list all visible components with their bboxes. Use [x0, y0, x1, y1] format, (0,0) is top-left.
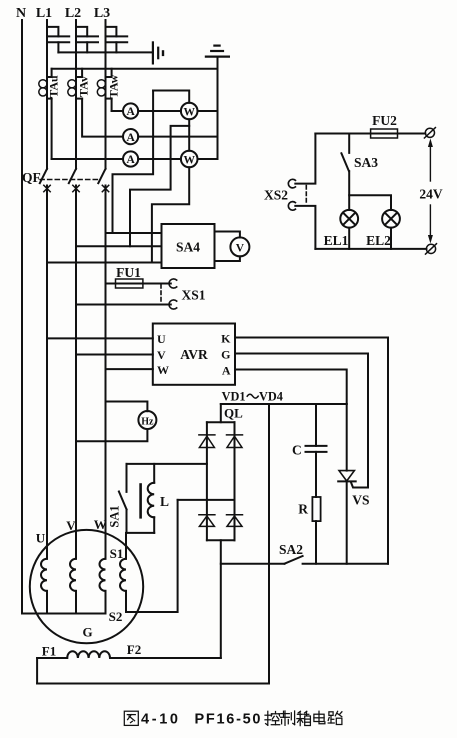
svg-text:N: N — [16, 6, 26, 21]
wire L1 vertical top — [46, 20, 48, 169]
svg-text:V: V — [236, 243, 245, 255]
capacitor C-L3 plates — [106, 36, 128, 42]
wire F1 down — [36, 658, 38, 684]
wire TAw secondary to A1 — [111, 99, 113, 111]
ammeter A2 letter — [126, 132, 135, 144]
wire W1 bottom to W2 top — [188, 119, 190, 150]
node N label — [16, 6, 26, 21]
resistor R — [312, 497, 320, 521]
breaker QF pole L3 blade — [98, 169, 105, 183]
wire winding U bottom — [46, 591, 48, 614]
wire L3 to AVR W — [106, 368, 153, 370]
svg-text:S1: S1 — [110, 546, 124, 561]
inductor L upper wire — [153, 464, 155, 483]
voltmeter V letter — [236, 243, 245, 255]
svg-text:R: R — [298, 502, 308, 517]
svg-text:L3: L3 — [94, 6, 110, 21]
inductor L label — [160, 494, 169, 509]
wire TAu to A3 — [52, 158, 123, 160]
wire AVR G to VS gate — [235, 354, 368, 488]
resistor R label — [298, 502, 308, 517]
wire XS2 upper to rail — [295, 134, 315, 184]
fuse FU2 — [371, 129, 398, 138]
label 24V — [419, 187, 443, 202]
wire bridge AC right tap — [178, 499, 235, 501]
switch SA1 blade — [119, 492, 127, 510]
frequency meter Hz letters — [141, 416, 154, 427]
diode VD2 — [227, 435, 243, 448]
wire bridge AC left tap — [127, 463, 207, 465]
svg-text:Hz: Hz — [141, 416, 154, 427]
diode VD3 — [199, 515, 215, 527]
caption glyph xiang (box) — [297, 711, 311, 725]
wire 24V bottom rail — [315, 248, 426, 250]
inductor L core bar — [139, 485, 142, 518]
socket XS1 lower contact — [169, 300, 177, 309]
socket XS2 label — [264, 188, 288, 203]
diode VD1 — [199, 435, 215, 448]
socket XS2 dashed link — [305, 186, 307, 204]
wire FU1 to XS1 upper — [143, 283, 171, 285]
regulator AVR label — [180, 347, 208, 362]
svg-text:G: G — [221, 348, 230, 362]
breaker QF linkage dashed — [40, 179, 100, 181]
label F1 — [42, 644, 56, 659]
generator winding W — [99, 559, 105, 591]
transformer TA-v (CT on L2) — [68, 69, 82, 99]
dimension arrow 24V lower — [428, 205, 433, 244]
wire L3 to FU1 — [106, 283, 116, 285]
switch SA1 lower wire — [126, 510, 128, 533]
fuse FU2 label — [372, 113, 397, 128]
svg-text:VD1: VD1 — [222, 389, 246, 403]
svg-text:TAu: TAu — [47, 75, 61, 98]
thyristor VS cathode wire — [346, 481, 348, 563]
wattmeter W1 — [181, 103, 198, 120]
svg-text:4-10: 4-10 — [141, 712, 178, 728]
inductor L coil — [148, 483, 154, 518]
svg-text:S2: S2 — [109, 609, 123, 624]
svg-text:AVR: AVR — [180, 347, 208, 362]
breaker QF contact x L2 — [73, 185, 79, 191]
wire L2 to XS1 lower — [76, 304, 171, 306]
svg-text:A: A — [222, 364, 231, 378]
svg-text:XS2: XS2 — [264, 188, 288, 203]
svg-text:K: K — [221, 332, 231, 346]
ammeter A1 letter — [126, 106, 135, 118]
caption glyph tu (figure) — [124, 711, 138, 725]
wire SA2 left — [221, 563, 285, 565]
thyristor VS label — [352, 493, 369, 508]
socket XS2 upper contact — [288, 179, 295, 188]
ground chassis (rotated) — [153, 42, 163, 63]
fuse FU1 label — [116, 265, 141, 280]
switch SA2 label — [279, 542, 303, 557]
inductor L lower wire — [153, 517, 155, 533]
socket XS1 label — [181, 288, 205, 303]
wire Hz to L2 — [76, 429, 147, 441]
svg-text:FU2: FU2 — [372, 113, 397, 128]
lamp EL1 label — [324, 233, 349, 248]
label S1 — [110, 546, 124, 561]
wire TAu secondary to A3 — [51, 99, 53, 159]
fuse FU1 — [116, 279, 143, 288]
wire winding W bottom — [105, 591, 107, 614]
svg-text:A: A — [126, 154, 135, 166]
lamp EL2 — [382, 210, 400, 228]
field winding F1-F2 wire right — [110, 657, 221, 659]
pin K label — [221, 332, 231, 346]
wire SA2 right — [303, 563, 388, 565]
switch SA1 upper stub — [126, 464, 128, 492]
socket XS2 lower contact — [288, 202, 295, 211]
lamp EL2 label — [366, 233, 391, 248]
node L2 label — [65, 6, 81, 21]
wire bottom return — [37, 683, 269, 685]
capacitor C label — [292, 443, 302, 458]
capacitor C-L2 plates — [76, 36, 98, 42]
wire SA4 to voltmeter bottom — [215, 256, 240, 261]
capacitor C-L3 lower stem — [115, 42, 117, 52]
transformer TA-u (CT on L1) — [39, 69, 52, 99]
svg-text:XS1: XS1 — [181, 288, 205, 303]
switch SA3 label — [354, 155, 378, 170]
switch SA1 label — [108, 505, 122, 527]
svg-text:VD4: VD4 — [259, 389, 283, 403]
pin U label — [157, 332, 166, 346]
ammeter A1 — [123, 103, 138, 118]
svg-text:V: V — [66, 518, 76, 533]
socket XS1 upper contact — [169, 279, 177, 288]
capacitor C-L2 branch wire — [76, 27, 87, 37]
svg-text:QL: QL — [224, 406, 243, 421]
svg-text:W: W — [157, 363, 169, 377]
wire EL1 bottom — [348, 228, 350, 249]
svg-text:EL2: EL2 — [366, 233, 391, 248]
voltmeter V — [230, 237, 249, 256]
breaker QF pole L2 blade — [69, 169, 76, 183]
svg-text:W: W — [183, 154, 195, 166]
capacitor C-L3 branch wire — [106, 27, 117, 37]
pin G label — [221, 348, 230, 362]
label S2 — [109, 609, 123, 624]
label F2 — [127, 642, 141, 657]
capacitor C upper wire — [315, 404, 317, 446]
field winding F1-F2 wire left — [37, 657, 67, 659]
wire L1 to SA4 (bus3) — [47, 262, 162, 264]
transformer TAw label — [106, 74, 120, 98]
generator G body — [30, 530, 143, 643]
terminal top — [424, 128, 435, 138]
transformer TAv label — [77, 76, 91, 97]
wire L1 to AVR U — [47, 337, 153, 339]
svg-text:G: G — [82, 625, 92, 640]
wire L2 vertical lower — [75, 186, 77, 559]
wire A1 to W1 — [138, 110, 181, 112]
svg-text:24V: 24V — [419, 187, 443, 202]
wire DC+ node horizontal — [221, 403, 347, 405]
wire S1 winding top — [125, 533, 127, 559]
wire CT secondary common bus — [52, 68, 218, 70]
capacitor C plates — [306, 446, 327, 452]
breaker QF contact x L1 — [44, 185, 50, 191]
wire A2 right to common — [138, 136, 217, 138]
label U — [36, 531, 46, 546]
wire L2 to AVR V — [76, 354, 153, 356]
capacitor C lower wire — [315, 452, 317, 497]
breaker QF contact x L3 — [102, 185, 108, 191]
frequency meter Hz wire from L3 — [106, 402, 148, 412]
svg-text:SA3: SA3 — [354, 155, 378, 170]
wire W1 loop down to SA4 bus1 — [113, 91, 154, 234]
switch SA4 label — [176, 240, 200, 255]
breaker QF pole L1 blade — [40, 169, 47, 183]
svg-text:F1: F1 — [42, 644, 56, 659]
ammeter A2 — [123, 129, 138, 144]
breaker QF label — [22, 170, 41, 185]
wire neutral bus — [22, 613, 106, 615]
svg-text:VS: VS — [352, 493, 369, 508]
capacitor C-L1 branch wire — [47, 27, 58, 37]
transformer TA-w (CT on L3) — [97, 69, 111, 99]
wire N vertical — [21, 20, 23, 614]
label QL — [224, 406, 243, 421]
ground earth top right — [206, 46, 229, 57]
thyristor VS anode wire — [346, 404, 348, 471]
wire L3 to SA4 (bus1) — [106, 232, 162, 234]
svg-text:U: U — [36, 531, 46, 546]
generator winding V — [70, 559, 76, 591]
switch SA4 box — [162, 224, 215, 268]
field winding F1-F2 coil — [67, 651, 110, 658]
switch SA3 blade — [341, 153, 349, 171]
wire L1 vertical lower — [46, 186, 48, 559]
wire L2 to SA4 (bus2) — [76, 245, 162, 247]
switch SA2 blade — [285, 556, 303, 564]
wire TAv secondary to A2 — [82, 99, 123, 137]
terminal bottom — [426, 244, 437, 254]
svg-text:SA2: SA2 — [279, 542, 303, 557]
wire capacitor bottom bus — [58, 51, 151, 53]
wire AC2 down to S2 — [126, 500, 178, 612]
svg-text:L: L — [160, 494, 169, 509]
wire bridge bottom to field F2 — [220, 540, 222, 658]
capacitor C-L2 lower stem — [86, 42, 88, 52]
wire A3 to W2 — [138, 158, 181, 160]
svg-text:A: A — [126, 106, 135, 118]
caption glyph zhi (system) — [281, 711, 295, 725]
node L3 label — [94, 6, 110, 21]
capacitor C-L1 lower stem — [57, 42, 59, 52]
wire L2 vertical top — [75, 20, 77, 169]
svg-text:W: W — [94, 517, 107, 532]
svg-text:F2: F2 — [127, 642, 141, 657]
svg-text:C: C — [292, 443, 302, 458]
node L1 label — [36, 6, 52, 21]
wire TAw to A1 — [112, 110, 123, 112]
label W — [94, 517, 107, 532]
pin W label — [157, 363, 169, 377]
wire right riser to DC node — [268, 404, 270, 684]
socket XS1 dashed link — [160, 285, 162, 304]
svg-text:TAw: TAw — [106, 74, 120, 98]
svg-text:QF: QF — [22, 170, 41, 185]
svg-text:A: A — [126, 132, 135, 144]
thyristor VS — [338, 471, 356, 482]
svg-text:TAv: TAv — [77, 76, 91, 97]
svg-text:L2: L2 — [65, 6, 81, 21]
wire W1W2 tap to SA4 bus2 — [130, 126, 189, 246]
switch SA3 stub — [348, 134, 350, 153]
wire W1 right to common — [198, 110, 218, 112]
caption figure title latin — [141, 712, 261, 728]
wire SA1/L junction to S1 — [127, 532, 155, 534]
wire 24V top rail — [315, 133, 370, 135]
wattmeter W1 letter — [183, 106, 195, 118]
pin V label — [157, 348, 166, 362]
frequency meter Hz — [138, 411, 156, 429]
label G — [82, 625, 92, 640]
label V — [66, 518, 76, 533]
wire W1 voltage loop — [153, 91, 189, 103]
caption glyph kong (control) — [265, 711, 280, 725]
generator winding U — [41, 559, 47, 591]
svg-text:U: U — [157, 332, 166, 346]
dimension arrow 24V upper — [428, 139, 433, 182]
svg-text:L1: L1 — [36, 6, 52, 21]
capacitor C-L1 plates — [48, 36, 70, 42]
wattmeter W2 — [181, 151, 198, 168]
svg-text:W: W — [183, 106, 195, 118]
wire SA3 to lamps — [348, 171, 350, 210]
svg-text:EL1: EL1 — [324, 233, 349, 248]
label VD1~VD4 — [222, 389, 283, 403]
ammeter A3 letter — [126, 154, 135, 166]
wire L3 vertical top — [105, 20, 107, 169]
diode VD4 — [227, 515, 243, 527]
wire FU2 to terminal — [398, 133, 426, 135]
svg-text:SA1: SA1 — [108, 505, 122, 527]
wire winding V bottom — [75, 591, 77, 614]
wattmeter W2 letter — [183, 154, 195, 166]
lamp EL1 — [340, 210, 358, 228]
ammeter A3 — [123, 151, 138, 166]
wire EL2 bottom — [390, 228, 392, 249]
wire SA4 to voltmeter top — [215, 232, 240, 238]
wire W2 bottom to SA4 bus3 — [152, 167, 189, 262]
wire earth stem / meter common vertical — [217, 58, 219, 159]
rectifier bridge QL frame — [207, 422, 235, 540]
wire lamp branch horizontal — [349, 195, 391, 210]
caption glyph dian (electric) — [314, 711, 325, 723]
wire AVR A to DC node — [235, 370, 347, 405]
svg-text:SA4: SA4 — [176, 240, 200, 255]
generator winding S — [120, 559, 126, 591]
wire W2 right to common — [198, 158, 218, 160]
svg-text:FU1: FU1 — [116, 265, 141, 280]
pin A label — [222, 364, 231, 378]
regulator AVR box — [153, 324, 235, 385]
wire XS2 lower to bottom rail — [295, 206, 315, 249]
wire winding S bottom — [125, 591, 127, 612]
wire AVR K to SA2 line — [235, 338, 388, 564]
wire R bottom — [315, 521, 317, 564]
caption glyph lu (circuit) — [328, 711, 342, 724]
svg-text:V: V — [157, 348, 166, 362]
transformer TAu label — [47, 75, 61, 98]
wire L3 vertical lower — [105, 186, 107, 559]
wire bridge top stub — [220, 404, 222, 422]
